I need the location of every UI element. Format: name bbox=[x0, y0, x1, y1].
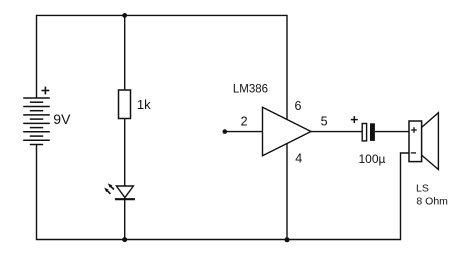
svg-text:1k: 1k bbox=[137, 97, 151, 112]
svg-text:9V: 9V bbox=[53, 111, 71, 127]
svg-text:100µ: 100µ bbox=[359, 152, 386, 166]
svg-text:8 Ohm: 8 Ohm bbox=[416, 196, 448, 208]
svg-text:2: 2 bbox=[241, 115, 248, 129]
svg-text:6: 6 bbox=[295, 99, 302, 113]
svg-text:4: 4 bbox=[295, 151, 302, 165]
svg-text:5: 5 bbox=[321, 115, 328, 129]
svg-text:LS: LS bbox=[416, 183, 429, 195]
svg-text:LM386: LM386 bbox=[233, 84, 268, 96]
